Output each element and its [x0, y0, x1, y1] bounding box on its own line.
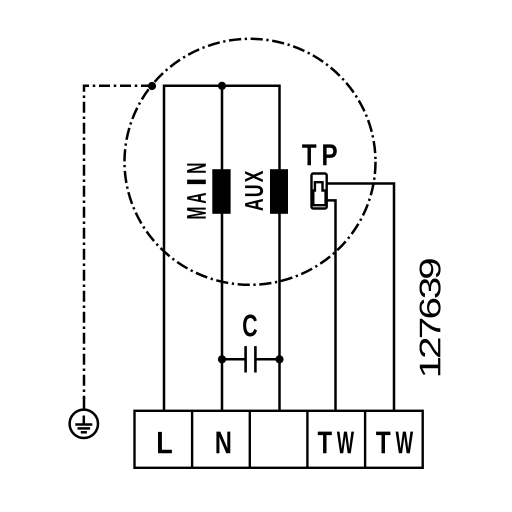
- label terminal N: [216, 432, 230, 454]
- wire (top rail): [164, 85, 280, 88]
- node (AUX wire / capacitor): [275, 355, 283, 363]
- label TP: [302, 144, 337, 165]
- thermal protector TP: [302, 144, 337, 208]
- node (earth junction on housing): [148, 82, 156, 90]
- winding MAIN (main winding): [212, 169, 230, 214]
- label 127639 (part number): [419, 259, 440, 375]
- wire (N branch through MAIN winding): [221, 86, 224, 411]
- winding AUX (auxiliary winding): [270, 169, 288, 214]
- terminal block: [135, 411, 423, 468]
- wire (right capacitor lead): [255, 358, 279, 361]
- TP contact (plug shape): [313, 182, 325, 205]
- wire (earth lead into ground symbol): [83, 397, 86, 410]
- capacitor plate (right): [254, 346, 257, 372]
- wire (AUX branch): [278, 85, 281, 411]
- wire (left capacitor lead): [222, 358, 246, 361]
- capacitor plate (left): [244, 346, 247, 372]
- wire (TP upper terminal to TW right): [327, 184, 394, 411]
- ground (protective earth symbol): [70, 410, 98, 438]
- wire (TP lower terminal to TW left): [327, 200, 336, 410]
- node (rail / main winding junction): [218, 82, 226, 90]
- wire (L branch: rail to terminal L): [163, 85, 166, 411]
- label AUX: [245, 171, 263, 211]
- label C: [243, 315, 257, 337]
- node (N wire / capacitor): [218, 355, 226, 363]
- label terminal TW (left): [318, 432, 354, 454]
- capacitor C: [218, 315, 284, 373]
- TP body: [312, 174, 327, 209]
- label MAIN: [187, 164, 206, 219]
- label terminal L: [158, 432, 172, 453]
- motor housing boundary (dash-dot circle): [125, 39, 376, 285]
- label terminal TW (right): [376, 432, 413, 454]
- protective earth wire (dash-dot): [84, 86, 152, 399]
